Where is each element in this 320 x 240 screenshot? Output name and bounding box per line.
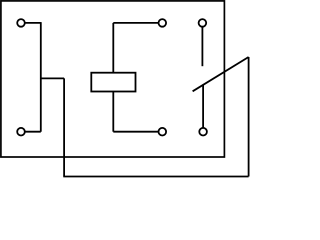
switch blade SW1 [193, 57, 249, 91]
terminal 2 (top middle) [159, 19, 167, 27]
wire: branch from bus rightward [41, 77, 64, 79]
terminal 5 (bottom middle) [159, 128, 167, 136]
terminal 6 (bottom right) [199, 128, 207, 136]
wire: right riser to switch blade [248, 57, 250, 177]
wire: terminal 6 to blade pivot [202, 84, 204, 131]
relay coil K1 [91, 73, 135, 92]
relay outline box [1, 1, 225, 157]
terminal 4 (bottom left) [17, 128, 25, 136]
terminal 3 (top right) [199, 19, 207, 27]
wire: terminal 2 to coil top [113, 22, 162, 24]
wire: down into coil [112, 23, 114, 73]
wire: coil bottom down [112, 92, 114, 132]
wire: step down and out of box [63, 78, 65, 176]
terminal 1 (top left) [17, 19, 25, 27]
wire: terminal 1 to left bus [21, 22, 41, 24]
wire: terminal 3 fixed contact [201, 23, 203, 66]
wire: to terminal 5 [113, 131, 162, 133]
wire: bottom run outside box [63, 176, 248, 178]
wire: left bus to terminal 4 [21, 131, 41, 133]
wire: left vertical bus [40, 22, 42, 132]
